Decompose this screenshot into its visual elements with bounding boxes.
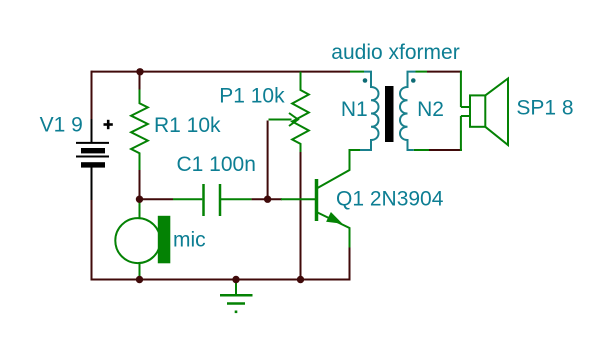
svg-text:N2: N2	[417, 98, 444, 121]
svg-text:mic: mic	[173, 229, 206, 252]
svg-text:Q1 2N3904: Q1 2N3904	[336, 188, 444, 211]
svg-text:R1 10k: R1 10k	[154, 114, 221, 137]
svg-text:C1 100n: C1 100n	[177, 153, 256, 176]
svg-text:N1: N1	[341, 98, 368, 121]
svg-text:audio xformer: audio xformer	[331, 41, 459, 64]
svg-text:P1 10k: P1 10k	[219, 84, 285, 107]
svg-text:SP1 8: SP1 8	[516, 97, 573, 120]
svg-text:V1 9: V1 9	[40, 114, 83, 137]
